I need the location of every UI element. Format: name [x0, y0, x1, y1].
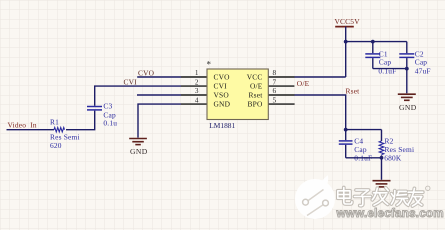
svg-text:O/E: O/E — [297, 79, 310, 88]
junction VCC branch — [344, 40, 348, 44]
svg-text:0.1u: 0.1u — [103, 118, 117, 127]
net label Rset — [346, 87, 361, 96]
svg-text:VCC: VCC — [247, 73, 263, 82]
wire to GND right — [406, 69, 408, 94]
wire caps bottom — [373, 68, 407, 70]
svg-text:VCC5V: VCC5V — [335, 17, 361, 26]
ground GND bottom right — [373, 181, 391, 187]
wire C4 bottom to R2 — [346, 157, 382, 159]
capacitor C1 — [365, 42, 396, 76]
svg-text:CVI: CVI — [124, 78, 138, 87]
svg-text:R1: R1 — [50, 117, 59, 126]
net label CVO — [138, 68, 155, 77]
svg-text:47uF: 47uF — [415, 67, 431, 76]
svg-text:680K: 680K — [384, 153, 402, 162]
wire Video In to R1 — [7, 129, 55, 131]
wire VSO stub (pin 3) — [137, 94, 181, 96]
wire CVO net (pin 1) — [137, 76, 181, 78]
svg-text:CVI: CVI — [214, 82, 228, 91]
svg-text:7: 7 — [273, 78, 277, 86]
svg-text:Res Semi: Res Semi — [50, 132, 80, 141]
power port VCC5V — [335, 17, 361, 27]
svg-text:Video In: Video In — [8, 120, 37, 129]
junction R2 bottom — [380, 156, 384, 160]
wire VCC branch to caps — [346, 41, 407, 43]
svg-text:GND: GND — [130, 147, 148, 156]
svg-text:O/E: O/E — [250, 82, 263, 91]
pin numbers right 8-5 — [273, 69, 277, 104]
svg-text:GND: GND — [399, 103, 417, 112]
wire pin 4 to ground — [138, 104, 181, 138]
wire VCC down to pin 8 — [345, 27, 347, 77]
capacitor C2 — [399, 42, 430, 76]
svg-text:620: 620 — [50, 141, 62, 150]
watermark text 电子发烧友 — [338, 186, 430, 206]
svg-text:*: * — [207, 60, 212, 70]
svg-text:2: 2 — [195, 78, 199, 86]
junction caps ground — [405, 67, 409, 71]
svg-text:6: 6 — [273, 87, 277, 95]
svg-text:4: 4 — [195, 96, 199, 104]
svg-text:Rset: Rset — [346, 87, 361, 96]
watermark logo elecfans — [295, 175, 335, 219]
svg-text:3: 3 — [195, 87, 199, 95]
ground GND top right — [398, 94, 417, 112]
svg-text:LM1881: LM1881 — [209, 121, 235, 130]
IC U1 LM1881 body — [207, 60, 269, 130]
svg-text:CVO: CVO — [214, 73, 231, 82]
wire C3 up to CVI net — [95, 86, 181, 106]
svg-text:5: 5 — [273, 96, 277, 104]
net label O/E — [297, 79, 310, 88]
net label CVI — [124, 78, 138, 87]
capacitor C4 — [339, 130, 373, 163]
svg-text:Cap: Cap — [415, 58, 428, 67]
resistor R1 — [50, 117, 80, 150]
svg-text:1: 1 — [195, 69, 199, 77]
wire R1 to C3 corner — [66, 111, 95, 130]
pin numbers left 1-4 — [195, 69, 199, 104]
svg-text:BPO: BPO — [248, 100, 263, 109]
svg-text:Rset: Rset — [249, 91, 264, 100]
port Video In — [8, 120, 37, 129]
resistor R2 — [379, 130, 414, 180]
svg-text:C3: C3 — [103, 101, 112, 110]
junction Rset / C4 — [344, 128, 348, 132]
svg-text:Cap: Cap — [379, 58, 392, 67]
IC U1 LM1881 pins 1-4 left — [181, 77, 207, 104]
svg-text:8: 8 — [273, 69, 277, 77]
watermark text www.elecfans.com — [336, 207, 444, 220]
svg-text:GND: GND — [214, 100, 231, 109]
svg-text:www.elecfans.com: www.elecfans.com — [336, 207, 444, 220]
svg-text:VSO: VSO — [214, 91, 230, 100]
ground GND left — [129, 139, 148, 157]
wire Rset branch to R2 — [346, 129, 382, 131]
IC U1 LM1881 pins 8-5 right — [268, 77, 294, 104]
svg-text:CVO: CVO — [138, 68, 155, 77]
wire pin 8 to VCC — [295, 76, 346, 78]
junction C1 top — [371, 40, 375, 44]
capacitor C3 — [87, 101, 117, 127]
wire pin 6 Rset — [295, 95, 346, 130]
